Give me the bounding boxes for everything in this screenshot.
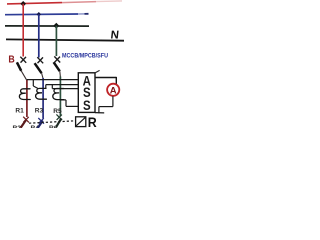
svg-text:R5: R5 — [53, 108, 62, 115]
svg-text:R3: R3 — [35, 108, 44, 115]
svg-text:R1: R1 — [15, 107, 24, 114]
svg-text:A: A — [110, 85, 117, 96]
svg-text:R: R — [88, 115, 98, 128]
svg-text:N: N — [110, 30, 120, 42]
svg-text:MCCB/MPCB/SFU: MCCB/MPCB/SFU — [62, 53, 108, 60]
svg-text:S: S — [83, 97, 91, 113]
svg-text:R2: R2 — [13, 125, 22, 128]
svg-text:B: B — [8, 54, 14, 66]
